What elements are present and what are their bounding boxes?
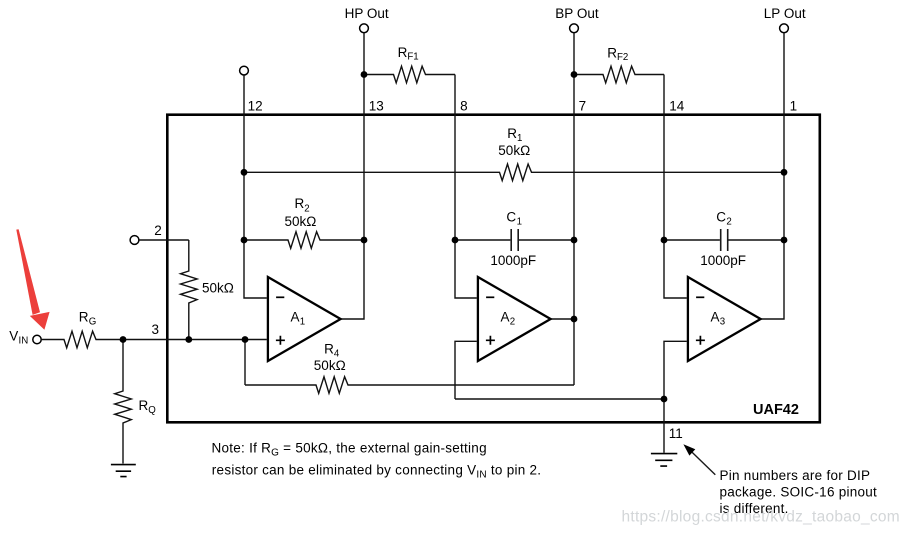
- svg-text:G: G: [89, 317, 97, 328]
- capacitor C1 plates: [511, 229, 518, 251]
- IC outline UAF42 box: [167, 115, 820, 423]
- ground under pin 11: [651, 454, 677, 467]
- wire R4 branch from node 3: [244, 340, 246, 386]
- svg-text:R: R: [324, 342, 334, 357]
- junction dot 15 at (664,399): [661, 396, 668, 403]
- resistor R2 50k: [244, 232, 364, 249]
- svg-text:2: 2: [304, 203, 309, 214]
- op-amp A2 triangle: [478, 277, 551, 361]
- wire pin 8 line to A2 inverting input: [455, 75, 477, 299]
- svg-text:Q: Q: [148, 405, 156, 416]
- annotation arrow to pin 11: [683, 444, 715, 474]
- svg-text:F2: F2: [617, 52, 628, 63]
- svg-text:2: 2: [154, 223, 162, 238]
- op-amp A1 minus sign: [276, 296, 284, 298]
- wire C1 left: [455, 239, 510, 241]
- svg-text:Note: If RG = 50kΩ, the extern: Note: If RG = 50kΩ, the external gain-se…: [212, 441, 487, 459]
- op-amp A2 minus sign: [486, 296, 494, 298]
- svg-text:1: 1: [300, 317, 305, 328]
- junction dot 12 at (188.8,339.5): [185, 336, 192, 343]
- svg-text:R: R: [79, 310, 89, 325]
- svg-text:1000pF: 1000pF: [490, 253, 536, 268]
- svg-text:resistor can be eliminated by: resistor can be eliminated by connecting…: [212, 463, 541, 481]
- junction dot 10 at (784,240): [781, 237, 788, 244]
- svg-text:14: 14: [669, 99, 685, 114]
- junction dot 7 at (455,240): [452, 237, 459, 244]
- svg-text:50kΩ: 50kΩ: [202, 280, 234, 295]
- wire A3 non-inverting input leg: [664, 341, 687, 399]
- resistor RF2: [574, 66, 664, 83]
- junction dot 4 at (784,172.3): [781, 169, 788, 176]
- resistor R1 50k: [244, 164, 784, 181]
- wire node 2 input: [139, 239, 189, 241]
- svg-text:50kΩ: 50kΩ: [285, 214, 317, 229]
- wire C2 left: [664, 239, 720, 241]
- resistor RG and node 3 wire to A1 non-inverting input: [41, 331, 267, 348]
- terminal pin 12: [240, 66, 249, 75]
- svg-text:8: 8: [460, 99, 468, 114]
- svg-text:package. SOIC-16 pinout: package. SOIC-16 pinout: [720, 485, 878, 500]
- wire pin 11 to ground: [663, 399, 665, 453]
- svg-text:1: 1: [517, 216, 522, 227]
- terminal VIN: [33, 335, 41, 343]
- svg-text:2: 2: [510, 317, 515, 328]
- wire A2 output stub: [551, 318, 574, 320]
- capacitor C2 plates: [721, 229, 728, 251]
- resistor RF1: [364, 66, 455, 83]
- op-amp A3 minus sign: [696, 296, 704, 298]
- svg-text:R: R: [507, 126, 517, 141]
- svg-text:1000pF: 1000pF: [700, 253, 746, 268]
- svg-text:11: 11: [669, 426, 683, 441]
- resistor RQ: [115, 340, 132, 464]
- svg-text:13: 13: [369, 99, 384, 114]
- svg-text:BP Out: BP Out: [555, 6, 599, 21]
- junction dot 8 at (574,240): [571, 237, 578, 244]
- resistor 50k gain-setting vertical: [181, 240, 198, 340]
- svg-text:50kΩ: 50kΩ: [314, 358, 346, 373]
- op-amp A3 triangle: [688, 277, 761, 361]
- junction dot 5 at (244,240): [241, 237, 248, 244]
- junction dot 14 at (574,319): [571, 316, 578, 323]
- ground under RQ: [111, 465, 136, 477]
- svg-text:HP Out: HP Out: [345, 6, 389, 21]
- svg-text:F1: F1: [407, 52, 418, 63]
- svg-text:https://blog.csdn.net/kvdz_tao: https://blog.csdn.net/kvdz_taobao_com: [622, 508, 900, 525]
- junction dot 9 at (664,240): [661, 237, 668, 244]
- wire A2 non-inverting input leg: [455, 341, 477, 399]
- svg-text:1: 1: [790, 99, 798, 114]
- svg-text:7: 7: [579, 99, 587, 114]
- svg-text:2: 2: [726, 216, 731, 227]
- svg-text:R: R: [139, 398, 149, 413]
- terminal HP Out: [360, 24, 369, 33]
- wire A2/A3 non-inverting bus: [455, 398, 664, 400]
- wire pin 1 LP line to A3 output: [761, 33, 784, 319]
- svg-text:R: R: [607, 45, 617, 60]
- svg-text:3: 3: [720, 317, 725, 328]
- svg-text:R: R: [295, 196, 305, 211]
- resistor R4 50k: [245, 377, 574, 394]
- wire pin 13 HP line to A1 output: [341, 33, 364, 319]
- svg-text:A: A: [501, 310, 510, 325]
- wire pin 7 BP line down to R4 row: [573, 33, 575, 385]
- junction dot 11 at (123,339.5): [120, 336, 127, 343]
- svg-text:C: C: [716, 209, 726, 224]
- op-amp A1 plus sign: [276, 336, 285, 345]
- svg-text:Pin numbers are for DIP: Pin numbers are for DIP: [720, 468, 871, 483]
- svg-text:R: R: [398, 45, 408, 60]
- wire pin 14 line to A3 inverting input: [664, 75, 687, 299]
- wire pin 12 vertical to A1 inverting input: [244, 75, 267, 298]
- svg-text:V: V: [9, 329, 18, 344]
- svg-text:LP Out: LP Out: [764, 6, 806, 21]
- terminal LP Out: [780, 24, 789, 33]
- svg-text:3: 3: [152, 322, 160, 337]
- svg-text:UAF42: UAF42: [753, 402, 799, 418]
- svg-text:A: A: [711, 310, 720, 325]
- svg-text:A: A: [291, 310, 300, 325]
- junction dot 13 at (245,339.5): [242, 336, 249, 343]
- op-amp A1 triangle: [268, 277, 341, 361]
- svg-text:C: C: [506, 209, 516, 224]
- wire C1 right: [519, 239, 574, 241]
- svg-text:12: 12: [248, 99, 263, 114]
- junction dot 6 at (364,240): [361, 237, 368, 244]
- wire C2 right: [729, 239, 785, 241]
- junction dot 3 at (244,172.3): [241, 169, 248, 176]
- junction dot 2 at (574,74.5): [571, 71, 578, 78]
- op-amp A3 plus sign: [696, 336, 705, 345]
- op-amp A2 plus sign: [486, 336, 495, 345]
- red annotation arrow: [16, 229, 49, 330]
- terminal BP Out: [570, 24, 579, 33]
- svg-text:50kΩ: 50kΩ: [498, 143, 530, 158]
- svg-text:IN: IN: [19, 336, 29, 347]
- terminal pin 2: [130, 236, 139, 245]
- junction dot 1 at (364,74.5): [361, 71, 368, 78]
